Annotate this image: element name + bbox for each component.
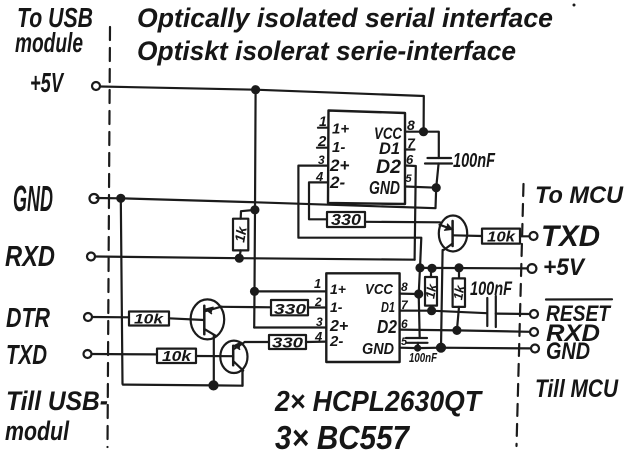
svg-text:100nF: 100nF xyxy=(409,351,437,365)
wire R7 to TXD terminal xyxy=(520,235,530,237)
node R8 bottom junction xyxy=(428,307,435,314)
transistor Q2 BC557 (TXD) xyxy=(220,341,247,373)
resistor R2 10k (DTR) xyxy=(129,312,169,326)
terminal +5V USB xyxy=(92,82,100,90)
svg-text:10k: 10k xyxy=(487,229,516,246)
svg-text:4: 4 xyxy=(314,329,323,344)
svg-text:100nF: 100nF xyxy=(470,279,513,300)
wire U2 pin8 stub xyxy=(400,293,419,296)
U1 pin labels right xyxy=(369,124,403,198)
node C3 bottom junction xyxy=(415,346,420,351)
svg-text:5: 5 xyxy=(401,336,408,348)
node +5V rail junction c xyxy=(456,264,463,271)
node Q3 collector junction xyxy=(437,344,445,352)
svg-text:+5V: +5V xyxy=(543,254,586,281)
wire R8 leads xyxy=(430,268,433,310)
svg-text:GND: GND xyxy=(13,178,53,219)
node IC1 pin8 junction xyxy=(420,128,427,135)
wire U1 pin3 to MCU +5V xyxy=(298,166,421,338)
svg-text:8: 8 xyxy=(407,117,415,133)
wire R9 leads xyxy=(457,268,459,331)
resistor R3 330 (IC2 pin2) xyxy=(271,300,308,315)
svg-text:5: 5 xyxy=(406,173,413,185)
terminal TXD MCU xyxy=(530,232,538,240)
resistor R9 1k (RXD pullup) xyxy=(453,278,465,307)
svg-text:Till MCU: Till MCU xyxy=(535,375,619,403)
resistor R1 1k pullup (USB RXD) xyxy=(233,219,248,251)
isolation barrier dashed line left xyxy=(108,27,111,447)
svg-text:330: 330 xyxy=(331,212,361,229)
wire Q2 emitter to R5 xyxy=(245,341,269,343)
wire U2 pin5 to GND terminal xyxy=(400,347,531,350)
svg-text:2-: 2- xyxy=(329,333,343,350)
svg-text:2-: 2- xyxy=(329,173,345,192)
RESET overline xyxy=(546,298,612,300)
svg-text:3: 3 xyxy=(316,315,323,329)
wire R6 to Q3 emitter xyxy=(365,221,440,224)
terminal +5V MCU xyxy=(528,264,537,273)
wire C2 to RESET terminal xyxy=(496,313,530,316)
node R1 top junction xyxy=(251,206,258,213)
svg-text:GND: GND xyxy=(546,338,590,365)
wire IC1 pin5 stub xyxy=(405,187,436,188)
terminal GND USB xyxy=(90,194,99,203)
wire DTR row xyxy=(92,316,129,318)
svg-text:1-: 1- xyxy=(330,299,343,315)
resistor R7 10k (MCU TXD) xyxy=(482,229,520,244)
svg-text:Optiskt isolerat serie-interfa: Optiskt isolerat serie-interface xyxy=(137,36,516,66)
node IC1 pin5 junction xyxy=(433,184,440,191)
svg-text:D2: D2 xyxy=(377,317,397,337)
svg-text:100nF: 100nF xyxy=(453,150,496,172)
op-amp U1 HCPL2630 (upper) xyxy=(328,111,405,205)
U1 pin2 stub xyxy=(317,147,328,149)
wire IC1 pin6 to RXD xyxy=(405,166,416,260)
capacitor C1 100nF plates xyxy=(425,158,452,164)
svg-text:8: 8 xyxy=(401,280,408,294)
wire to capacitor C1 xyxy=(424,132,439,158)
node Q1 collector junction xyxy=(210,381,218,389)
wire GND USB rail xyxy=(97,188,437,209)
transistor Q1 BC557 (DTR) xyxy=(191,299,225,339)
label To USB module xyxy=(15,2,93,58)
wire TXD row xyxy=(92,353,158,356)
capacitor C2 100nF plates (RESET series) xyxy=(487,296,496,327)
svg-text:Till USB-: Till USB- xyxy=(6,386,108,416)
terminal TXD USB xyxy=(84,350,92,358)
wire Q3 collector to MCU GND xyxy=(441,250,443,348)
wire R1 top lead xyxy=(241,210,255,219)
wire R1 bottom lead xyxy=(239,250,240,258)
wire R5 to IC2 pin4 xyxy=(306,341,326,344)
wire R3 to IC2 pin2 xyxy=(308,306,326,308)
node +5V rail junction b xyxy=(429,265,436,272)
svg-text:330: 330 xyxy=(274,301,307,318)
wire Q1 emitter to R3 xyxy=(222,306,271,309)
svg-text:D1: D1 xyxy=(381,299,395,316)
wire U1 pin4 to R6 xyxy=(309,182,328,219)
svg-text:2: 2 xyxy=(314,295,322,309)
U2 pin numbers xyxy=(314,276,409,348)
U1 pin7 stub xyxy=(405,148,415,150)
U2 pin labels left xyxy=(329,281,348,350)
wire GND bus vertical xyxy=(121,198,243,385)
U1 pin labels left xyxy=(329,121,349,193)
svg-text:330: 330 xyxy=(272,335,304,352)
transistor Q3 BC557 (MCU TXD) xyxy=(439,216,467,252)
resistor R8 1k (RESET pullup) xyxy=(425,277,437,306)
wire Q3 base to R7 xyxy=(453,234,482,237)
svg-text:D2: D2 xyxy=(376,157,401,178)
U1 pin1 stub xyxy=(318,127,328,129)
svg-text:10k: 10k xyxy=(134,311,165,327)
svg-text:2× HCPL2630QT: 2× HCPL2630QT xyxy=(274,386,483,418)
svg-text:GND: GND xyxy=(369,178,400,198)
wire U2 pin6 to RXD terminal xyxy=(400,330,530,332)
node +5V drop junction xyxy=(252,86,259,93)
wire IC1 pin8 stub xyxy=(405,131,424,133)
isolation barrier dashed line right xyxy=(517,184,524,446)
wire +5V USB rail xyxy=(100,87,424,132)
svg-text:TXD: TXD xyxy=(541,220,600,253)
resistor R5 330 (IC2 pin4) xyxy=(269,335,306,349)
speck top right xyxy=(573,4,576,7)
terminal RESET MCU xyxy=(530,310,538,318)
capacitor C3 100nF plates (IC2 VCC) xyxy=(406,338,428,343)
svg-text:1+: 1+ xyxy=(330,281,346,297)
wire IC2 pin3 from +5V drop xyxy=(254,326,326,328)
node U2 pin8 junction xyxy=(415,291,422,298)
U1 pin numbers xyxy=(315,113,416,185)
svg-text:DTR: DTR xyxy=(6,302,51,333)
wire R2 to Q1 base xyxy=(169,318,204,320)
wire +5V drop to IC2 anodes xyxy=(254,90,255,328)
svg-text:modul: modul xyxy=(5,416,69,446)
terminal RXD MCU xyxy=(530,328,538,336)
terminal RXD USB xyxy=(87,253,95,261)
node R9 bottom junction xyxy=(453,327,460,334)
node IC2 pin1 junction xyxy=(251,288,258,295)
resistor R4 10k (TXD) xyxy=(157,349,196,363)
svg-text:RXD: RXD xyxy=(5,241,55,273)
wire RXD USB row xyxy=(95,257,415,260)
wire R4 to Q2 base xyxy=(196,355,233,357)
svg-text:Optically isolated serial inte: Optically isolated serial interface xyxy=(137,3,553,33)
svg-text:GND: GND xyxy=(362,341,394,358)
svg-text:1-: 1- xyxy=(332,139,345,156)
node GND bus junction xyxy=(117,195,124,202)
svg-text:6: 6 xyxy=(406,152,414,167)
wire C1 bottom to pin5 xyxy=(436,164,438,188)
wire IC2 pin1 from +5V drop xyxy=(255,290,327,292)
svg-text:VCC: VCC xyxy=(365,281,394,298)
node R1 bottom junction xyxy=(236,255,243,262)
svg-text:1+: 1+ xyxy=(332,121,349,138)
wire +5V MCU rail xyxy=(420,267,528,270)
svg-text:3× BC557: 3× BC557 xyxy=(275,419,410,456)
svg-text:D1: D1 xyxy=(379,139,400,158)
wire Q1 collector to GND bus xyxy=(213,336,215,386)
terminal GND MCU xyxy=(531,345,539,353)
svg-text:module: module xyxy=(15,27,83,58)
wire C3 bottom lead xyxy=(417,343,420,348)
terminal DTR USB xyxy=(84,313,92,321)
resistor R6 330 (U1 pin4) xyxy=(327,212,365,227)
svg-text:TXD: TXD xyxy=(6,339,47,370)
op-amp U2 HCPL2630 (lower) xyxy=(326,273,399,362)
wire U2 pin7 to C2 xyxy=(400,311,487,314)
svg-text:1: 1 xyxy=(314,276,321,291)
svg-text:10k: 10k xyxy=(162,348,192,365)
U2 pin labels right xyxy=(362,281,397,358)
label Till USB-modul xyxy=(5,386,108,446)
node +5V rail junction a xyxy=(417,264,424,271)
svg-text:To MCU: To MCU xyxy=(535,182,624,209)
wire Q2 collector to GND bus xyxy=(241,371,243,386)
svg-text:+5V: +5V xyxy=(30,67,65,98)
